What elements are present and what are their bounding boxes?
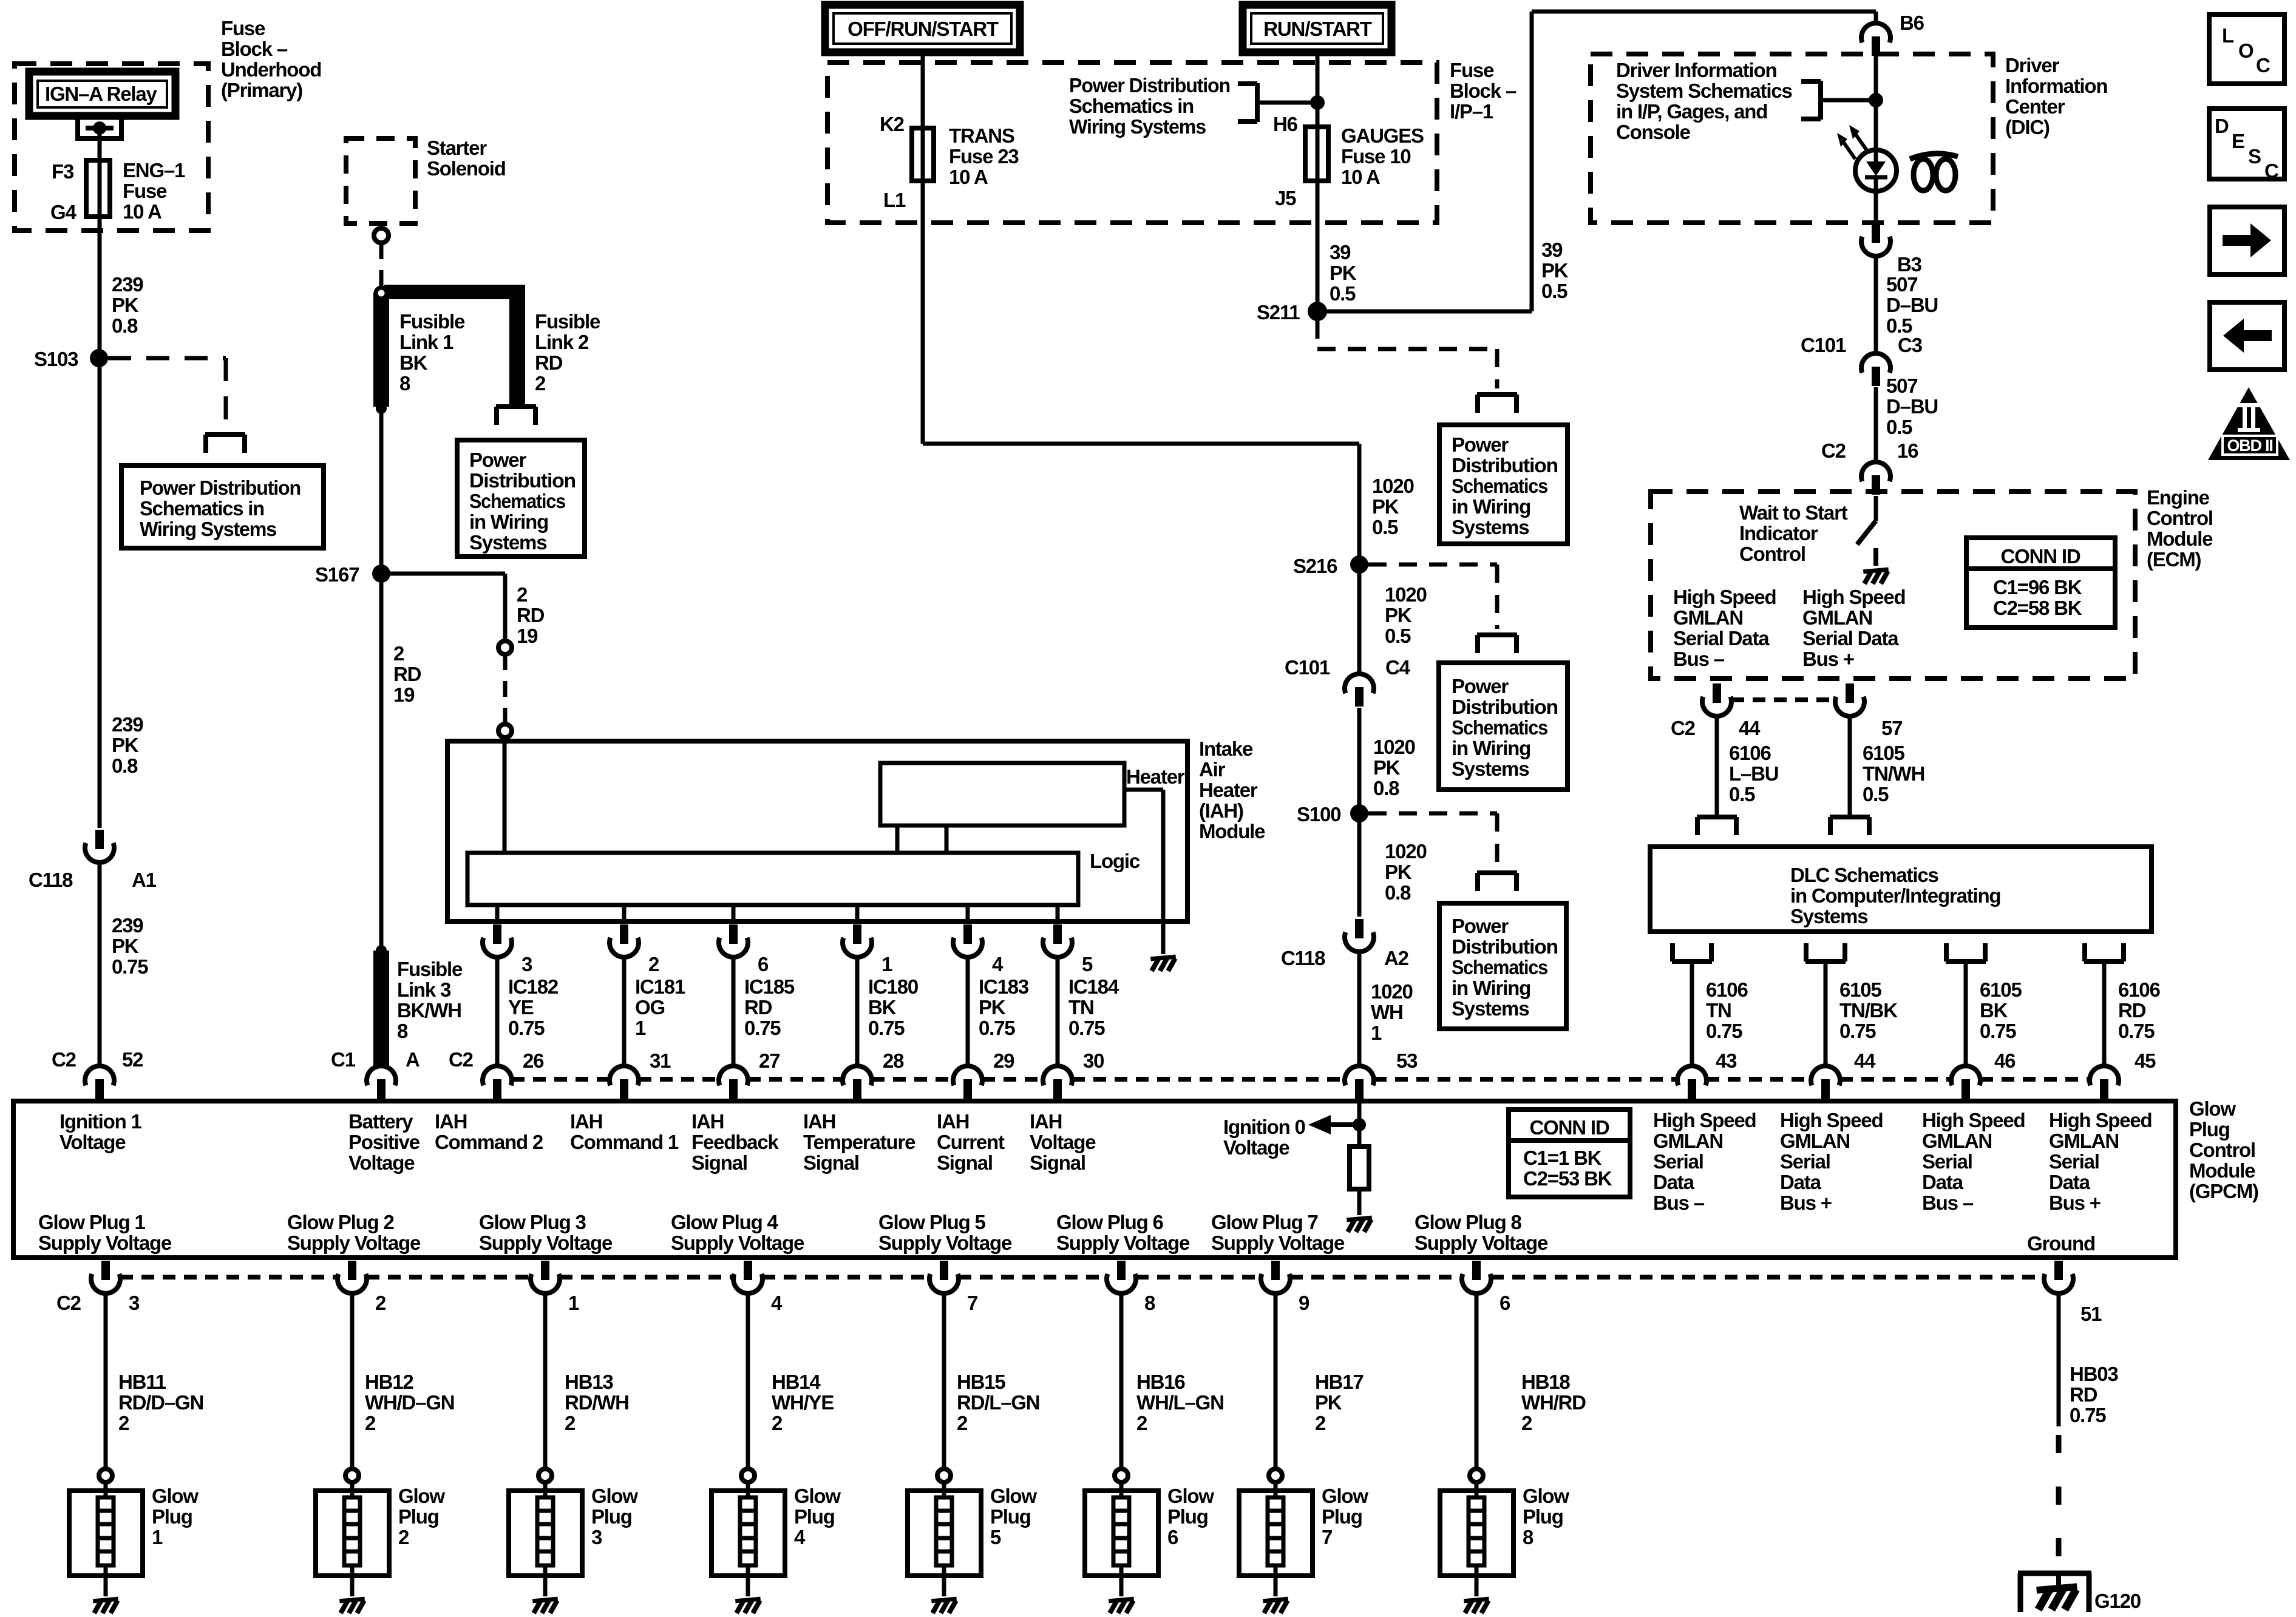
GPCM CONN ID box xyxy=(1509,1110,1630,1197)
bracket out of DLC (44) xyxy=(1805,943,1846,961)
svg-text:RD/WH: RD/WH xyxy=(565,1391,629,1414)
node above fusible link 3 xyxy=(376,945,387,956)
wire label 239 PK 0.8 xyxy=(112,273,143,337)
glow plug 7 box xyxy=(1239,1491,1313,1576)
GPCM C2 connector dashed row (top) xyxy=(512,1077,2090,1082)
svg-text:HB18: HB18 xyxy=(1521,1371,1570,1393)
GPCM bottom pin 6 connector xyxy=(1462,1261,1491,1293)
svg-text:Glow Plug 5: Glow Plug 5 xyxy=(878,1211,985,1233)
GPCM pin 30 connector xyxy=(1043,1066,1072,1099)
svg-text:C2: C2 xyxy=(1671,717,1696,739)
relay K label IGN-A Relay xyxy=(45,83,158,105)
svg-text:RD: RD xyxy=(2118,999,2146,1022)
GPCM C2 connector dashed row (bottom) xyxy=(120,1275,2044,1280)
svg-text:HB03: HB03 xyxy=(2070,1363,2118,1385)
ECM CONN ID divider xyxy=(1966,566,2115,571)
label C118 (A2) xyxy=(1281,947,1325,969)
wire label 6105 TN/WH 0.5 xyxy=(1863,742,1924,805)
svg-text:2: 2 xyxy=(398,1526,409,1548)
label CONN ID (GPCM) xyxy=(1530,1116,1609,1139)
svg-text:Block –: Block – xyxy=(1450,80,1517,102)
svg-text:Schematics: Schematics xyxy=(1452,716,1547,739)
label C101 (C3) xyxy=(1801,334,1846,356)
svg-text:C2: C2 xyxy=(56,1292,81,1314)
label IAH voltage signal xyxy=(1030,1110,1096,1174)
wire label HB15 xyxy=(957,1371,1039,1434)
svg-text:in I/P, Gages, and: in I/P, Gages, and xyxy=(1616,100,1767,123)
svg-text:Supply Voltage: Supply Voltage xyxy=(287,1232,421,1254)
glow plug 2 ground wire xyxy=(350,1576,355,1596)
label H6 xyxy=(1273,113,1298,135)
IAH output wire pin 1 xyxy=(855,905,860,923)
svg-text:C1=96 BK: C1=96 BK xyxy=(1993,576,2082,598)
label S100 xyxy=(1297,803,1340,825)
svg-text:Plug: Plug xyxy=(2189,1118,2230,1141)
svg-text:Wiring Systems: Wiring Systems xyxy=(140,518,276,540)
svg-text:5: 5 xyxy=(990,1526,1001,1548)
dashed wire to IAH xyxy=(503,654,508,724)
wire GPCM to glow plug 8 xyxy=(1475,1293,1479,1469)
svg-text:Bus –: Bus – xyxy=(1673,648,1725,670)
svg-text:(IAH): (IAH) xyxy=(1199,799,1243,822)
svg-text:Serial: Serial xyxy=(1780,1150,1830,1173)
dashed wire solenoid to fusible link xyxy=(379,243,384,286)
svg-text:C: C xyxy=(2256,54,2270,76)
svg-text:Underhood: Underhood xyxy=(221,58,321,81)
fusible link 1 label xyxy=(399,310,465,395)
GPCM CONN ID divider xyxy=(1509,1138,1630,1143)
ECM pin 57 connector xyxy=(1835,683,1864,716)
wire S211 to B6 riser xyxy=(1317,12,1876,311)
svg-text:2: 2 xyxy=(957,1412,968,1434)
gmlan bus - label 1 (GPCM) xyxy=(1653,1109,1756,1214)
label RUN/START xyxy=(1263,18,1371,40)
svg-text:B6: B6 xyxy=(1900,12,1924,34)
dashed branch from S100 xyxy=(1368,813,1497,867)
svg-text:Signal: Signal xyxy=(937,1151,993,1174)
svg-text:DLC Schematics: DLC Schematics xyxy=(1790,864,1938,886)
svg-text:Supply Voltage: Supply Voltage xyxy=(1211,1232,1345,1254)
wire GPCM to glow plug 2 xyxy=(350,1293,355,1469)
svg-text:C2=58 BK: C2=58 BK xyxy=(1993,597,2082,619)
label glow plug 1 supply voltage xyxy=(38,1211,172,1254)
svg-text:6105: 6105 xyxy=(1863,742,1904,764)
IAH internal ground xyxy=(1150,957,1175,971)
svg-text:GMLAN: GMLAN xyxy=(1673,606,1743,629)
junction dot H6 xyxy=(1310,95,1325,110)
svg-text:TN/BK: TN/BK xyxy=(1839,999,1898,1022)
forward arrow icon box xyxy=(2210,207,2284,274)
wire DLC to GPCM pin 45 xyxy=(2102,964,2107,1066)
svg-text:RD: RD xyxy=(535,351,563,374)
svg-text:Wiring Systems: Wiring Systems xyxy=(1069,115,1206,138)
label S103 xyxy=(34,348,78,370)
wire IC185 label xyxy=(744,975,795,1039)
wire label HB13 xyxy=(565,1371,629,1434)
label ignition 0 voltage xyxy=(1223,1116,1305,1159)
svg-text:6105: 6105 xyxy=(1839,978,1881,1001)
svg-text:GMLAN: GMLAN xyxy=(2049,1130,2119,1152)
svg-text:RUN/START: RUN/START xyxy=(1263,18,1371,40)
wire into IAH logic xyxy=(503,737,507,853)
svg-text:C118: C118 xyxy=(1281,947,1325,969)
fuse K2 value label xyxy=(949,124,1019,188)
label pin 9 (bottom) xyxy=(1299,1292,1309,1314)
svg-text:Link 1: Link 1 xyxy=(399,331,453,353)
svg-text:0.75: 0.75 xyxy=(112,955,148,978)
driver information text xyxy=(1616,59,1792,143)
svg-text:3: 3 xyxy=(129,1292,140,1314)
wire C118 A1 to GPCM pin 52 xyxy=(98,863,102,1066)
svg-text:0.75: 0.75 xyxy=(2118,1020,2155,1042)
svg-text:1020: 1020 xyxy=(1373,736,1415,758)
label B6 xyxy=(1900,12,1924,34)
svg-text:High Speed: High Speed xyxy=(1653,1109,1756,1131)
svg-text:1020: 1020 xyxy=(1372,475,1414,497)
GPCM bottom pin 2 connector xyxy=(338,1261,367,1293)
svg-text:9: 9 xyxy=(1299,1292,1309,1314)
label battery positive voltage xyxy=(348,1110,420,1174)
wire label HB11 xyxy=(118,1371,203,1434)
svg-text:Serial: Serial xyxy=(1653,1150,1703,1173)
wire S100 to C118 A2 xyxy=(1357,813,1362,917)
GPCM pin 52 connector xyxy=(85,1066,114,1099)
svg-text:Supply Voltage: Supply Voltage xyxy=(38,1232,172,1254)
label 43 xyxy=(1716,1049,1737,1072)
svg-text:Battery: Battery xyxy=(348,1110,413,1133)
svg-text:Power: Power xyxy=(469,449,526,471)
label pin 2 (bottom) xyxy=(375,1292,386,1314)
label glow plug 4 supply voltage xyxy=(671,1211,804,1254)
GPCM pin 29 connector xyxy=(953,1066,982,1099)
svg-text:5: 5 xyxy=(1082,953,1093,975)
label S216 xyxy=(1293,555,1337,577)
glow plug 8 ground wire xyxy=(1475,1576,1479,1596)
label 28 xyxy=(883,1049,904,1072)
svg-text:29: 29 xyxy=(993,1049,1014,1072)
ignition 0 ground xyxy=(1347,1218,1371,1232)
svg-text:Current: Current xyxy=(937,1131,1005,1153)
wire B6 to LED xyxy=(1874,55,1878,151)
svg-text:IAH: IAH xyxy=(803,1110,835,1133)
bracket out of DLC (45) xyxy=(2084,943,2124,961)
glow plug 1 terminal circle xyxy=(99,1469,112,1482)
svg-text:C: C xyxy=(2264,160,2278,182)
glow plug 1 ground wire xyxy=(104,1576,108,1596)
ignition 0 wire and junction xyxy=(1353,1100,1366,1147)
svg-text:Systems: Systems xyxy=(1452,997,1529,1020)
svg-text:Fuse: Fuse xyxy=(123,180,167,202)
wire S167 to fusible link 3 xyxy=(379,574,384,951)
svg-text:0.5: 0.5 xyxy=(1863,783,1889,805)
svg-text:Control: Control xyxy=(1739,543,1805,565)
svg-text:GAUGES: GAUGES xyxy=(1341,124,1424,147)
label 53 xyxy=(1396,1049,1418,1072)
svg-text:4: 4 xyxy=(771,1292,783,1314)
wire fuse H6 to S211 xyxy=(1316,181,1320,311)
svg-text:Fusible: Fusible xyxy=(399,310,465,333)
node S211 xyxy=(1308,302,1327,321)
label glow plug 6 supply voltage xyxy=(1056,1211,1190,1254)
wire GPCM to glow plug 3 xyxy=(543,1293,548,1469)
svg-text:System Schematics: System Schematics xyxy=(1616,80,1792,102)
svg-text:Fusible: Fusible xyxy=(397,958,463,980)
svg-text:High Speed: High Speed xyxy=(2049,1109,2152,1131)
svg-text:Glow Plug 8: Glow Plug 8 xyxy=(1415,1211,1521,1233)
ignition 0 resistor xyxy=(1350,1147,1369,1189)
connector C118 A2 xyxy=(1345,919,1374,952)
svg-text:Driver Information: Driver Information xyxy=(1616,59,1776,81)
svg-text:Schematics: Schematics xyxy=(1452,956,1547,978)
glow plug 7 ground wire xyxy=(1274,1576,1278,1596)
GPCM pin 28 connector xyxy=(843,1066,872,1099)
wire IAH to GPCM pin 27 xyxy=(732,957,736,1066)
glow plug 3 ground wire xyxy=(543,1576,548,1596)
wire label 6106 L-BU 0.5 xyxy=(1729,742,1778,805)
label J5 xyxy=(1275,187,1296,209)
wire label HB03 RD 0.75 xyxy=(2070,1363,2118,1426)
svg-text:2: 2 xyxy=(375,1292,386,1314)
svg-text:27: 27 xyxy=(759,1049,779,1072)
svg-text:BK: BK xyxy=(399,351,428,374)
svg-text:PK: PK xyxy=(979,996,1006,1019)
svg-text:3: 3 xyxy=(521,953,532,975)
G120 ground symbol xyxy=(2037,1573,2077,1610)
svg-text:I/P–1: I/P–1 xyxy=(1450,100,1493,123)
glow plug 8 ground xyxy=(1464,1599,1489,1613)
connector C101 C4 xyxy=(1345,674,1374,707)
svg-text:RD: RD xyxy=(393,663,421,685)
svg-text:C4: C4 xyxy=(1385,656,1411,679)
wire L1 to S216 riser xyxy=(923,181,1359,564)
wire pin 51 down xyxy=(2057,1293,2061,1426)
fuse K2 TRANS symbol xyxy=(912,128,934,181)
wire C2 16 into ECM xyxy=(1874,496,1878,521)
label 30 xyxy=(1083,1049,1104,1072)
node S216 xyxy=(1350,555,1368,574)
label pin 2 xyxy=(648,953,659,975)
label IAH command 2 xyxy=(435,1110,543,1153)
IAH pin 6 connector xyxy=(719,924,748,957)
label C2 (16) xyxy=(1821,439,1846,462)
relay K inner box xyxy=(38,81,167,107)
forward arrow xyxy=(2223,223,2271,257)
GPCM pin A connector xyxy=(367,1066,396,1099)
svg-text:1: 1 xyxy=(1371,1022,1382,1044)
svg-text:HB14: HB14 xyxy=(772,1371,821,1393)
svg-text:0.75: 0.75 xyxy=(1706,1020,1742,1042)
label Heater xyxy=(1126,765,1185,788)
wire through fuse K2 xyxy=(921,128,925,181)
wire IAH to GPCM pin 29 xyxy=(966,957,970,1066)
svg-text:Command 2: Command 2 xyxy=(435,1131,543,1153)
svg-text:Plug: Plug xyxy=(398,1505,439,1528)
label A xyxy=(406,1048,419,1071)
svg-text:Bus –: Bus – xyxy=(1922,1192,1974,1214)
dashed wire to G120 xyxy=(2056,1435,2062,1573)
svg-text:Feedback: Feedback xyxy=(691,1131,779,1153)
glow plug 6 terminal circle xyxy=(1115,1469,1128,1482)
svg-text:Plug: Plug xyxy=(1523,1505,1563,1528)
svg-text:Glow: Glow xyxy=(152,1485,199,1507)
svg-text:Fuse 10: Fuse 10 xyxy=(1341,145,1411,168)
svg-text:0.75: 0.75 xyxy=(868,1017,905,1039)
bracket to power distribution box (S211) xyxy=(1477,395,1517,413)
svg-text:E: E xyxy=(2232,130,2244,152)
svg-text:Bus –: Bus – xyxy=(1653,1192,1705,1214)
wire label 2 RD 19 (branch) xyxy=(517,583,545,647)
svg-text:TN/WH: TN/WH xyxy=(1863,762,1924,785)
gmlan bus + label 2 (GPCM) xyxy=(2049,1109,2152,1214)
svg-text:Plug: Plug xyxy=(152,1505,192,1528)
wire LED to DIC pin xyxy=(1874,192,1878,223)
fusible link 2 thick bar xyxy=(384,285,525,405)
svg-text:PK: PK xyxy=(112,734,139,756)
ignition 0 arrow xyxy=(1308,1115,1359,1134)
label glow plug 7 supply voltage xyxy=(1211,1211,1345,1254)
wire label 6105 BK xyxy=(1980,978,2022,1042)
svg-text:Distribution: Distribution xyxy=(1452,454,1558,476)
svg-text:0.8: 0.8 xyxy=(1373,777,1399,799)
RUN/START outer box xyxy=(1243,5,1391,52)
LED diode xyxy=(1865,150,1887,192)
bracket to power distribution box (S216) xyxy=(1477,635,1517,653)
svg-text:239: 239 xyxy=(112,914,143,937)
bracket to power distribution box (S100) xyxy=(1477,873,1517,891)
svg-text:2: 2 xyxy=(118,1412,129,1434)
GPCM pin 45 connector xyxy=(2090,1066,2119,1099)
DIC label xyxy=(2005,54,2107,138)
svg-text:(Primary): (Primary) xyxy=(221,79,302,101)
wait to start switch blade xyxy=(1857,521,1876,544)
label ground (GPCM) xyxy=(2027,1232,2095,1255)
svg-text:0.5: 0.5 xyxy=(1541,280,1567,302)
svg-text:Plug: Plug xyxy=(591,1505,632,1528)
OBD II text xyxy=(2227,436,2272,455)
svg-text:Logic: Logic xyxy=(1090,850,1140,872)
svg-text:G120: G120 xyxy=(2094,1590,2141,1612)
glow plug 1 label xyxy=(152,1485,199,1548)
glow plug 2 ground xyxy=(339,1599,364,1613)
svg-text:Plug: Plug xyxy=(1167,1505,1208,1528)
svg-text:High Speed: High Speed xyxy=(1922,1109,2025,1131)
svg-text:239: 239 xyxy=(112,273,143,296)
svg-text:45: 45 xyxy=(2135,1049,2156,1072)
svg-text:S211: S211 xyxy=(1257,301,1300,324)
label C118 (A1) xyxy=(29,869,73,891)
OBD II pillar xyxy=(2238,403,2260,432)
wire IC182 label xyxy=(508,975,559,1039)
high speed gmlan bus + label (ECM) xyxy=(1802,586,1906,670)
power distribution text (I/P) xyxy=(1069,74,1230,138)
svg-text:507: 507 xyxy=(1886,375,1917,397)
svg-text:Data: Data xyxy=(1780,1171,1822,1193)
svg-text:Fuse 23: Fuse 23 xyxy=(949,145,1019,168)
svg-text:52: 52 xyxy=(122,1048,143,1071)
svg-text:IC184: IC184 xyxy=(1068,975,1119,998)
glow plug 5 element xyxy=(936,1482,952,1576)
svg-text:IC181: IC181 xyxy=(635,975,685,998)
svg-text:Glow: Glow xyxy=(398,1485,445,1507)
label C2=53 BK xyxy=(1523,1167,1612,1190)
svg-text:10 A: 10 A xyxy=(1341,166,1380,188)
svg-text:PK: PK xyxy=(1385,604,1412,626)
svg-text:Bus +: Bus + xyxy=(1780,1192,1832,1214)
OFF/RUN/START inner box xyxy=(834,13,1011,44)
glow plug 1 element xyxy=(98,1482,114,1576)
wire label HB18 xyxy=(1521,1371,1586,1434)
svg-text:K2: K2 xyxy=(880,113,905,135)
svg-text:High Speed: High Speed xyxy=(1673,586,1776,608)
svg-text:BK: BK xyxy=(868,996,897,1019)
svg-text:6: 6 xyxy=(1167,1526,1178,1548)
svg-text:Glow: Glow xyxy=(1322,1485,1368,1507)
svg-text:C3: C3 xyxy=(1898,334,1923,356)
svg-text:BK/WH: BK/WH xyxy=(397,999,461,1022)
svg-text:in Wiring: in Wiring xyxy=(1452,495,1530,518)
fuse F3 ENG-1 symbol xyxy=(86,160,110,217)
DIC bottom pin connector xyxy=(1861,223,1890,256)
label A1 xyxy=(132,869,157,891)
svg-text:Systems: Systems xyxy=(1790,905,1867,927)
label 57 (ECM) xyxy=(1881,717,1902,739)
IAH pin 5 connector xyxy=(1043,924,1072,957)
svg-text:1: 1 xyxy=(881,953,892,975)
svg-text:Power: Power xyxy=(1452,433,1509,456)
node S100 xyxy=(1350,804,1368,822)
svg-text:H6: H6 xyxy=(1273,113,1298,135)
svg-text:10 A: 10 A xyxy=(949,166,988,188)
svg-text:C1: C1 xyxy=(331,1048,356,1071)
svg-text:F3: F3 xyxy=(52,160,74,183)
bracket out of DLC (43) xyxy=(1672,943,1712,961)
connector C2 16 xyxy=(1861,462,1890,495)
GPCM bottom pin 7 connector xyxy=(929,1261,959,1293)
label S211 xyxy=(1257,301,1300,324)
wire through fuse H6 xyxy=(1316,127,1320,181)
svg-text:A: A xyxy=(406,1048,419,1071)
glow plug 5 ground xyxy=(931,1599,956,1613)
svg-text:2: 2 xyxy=(772,1412,783,1434)
svg-text:Command 1: Command 1 xyxy=(570,1131,679,1153)
fuse block I/P-1 label xyxy=(1450,59,1517,123)
svg-text:0.75: 0.75 xyxy=(744,1017,781,1039)
svg-text:Schematics: Schematics xyxy=(469,490,565,512)
label B3 xyxy=(1897,253,1922,276)
svg-text:GMLAN: GMLAN xyxy=(1653,1130,1723,1152)
svg-text:OG: OG xyxy=(635,996,665,1019)
label C2 (bottom row) xyxy=(56,1292,81,1314)
svg-text:L1: L1 xyxy=(883,189,906,211)
label IAH temperature signal xyxy=(803,1110,915,1174)
svg-text:C101: C101 xyxy=(1801,334,1846,356)
svg-text:B3: B3 xyxy=(1897,253,1922,276)
svg-text:Link 3: Link 3 xyxy=(397,978,451,1001)
svg-text:2: 2 xyxy=(648,953,659,975)
IAH pin 4 connector xyxy=(953,924,982,957)
glow plug 4 ground xyxy=(735,1599,760,1613)
svg-text:HB16: HB16 xyxy=(1136,1371,1185,1393)
svg-text:Systems: Systems xyxy=(469,531,546,554)
svg-text:IC183: IC183 xyxy=(979,975,1029,998)
wire IAH to GPCM pin 31 xyxy=(622,957,627,1066)
heater-logic links xyxy=(897,825,946,853)
wire IC180 label xyxy=(868,975,918,1039)
svg-text:PK: PK xyxy=(1372,495,1399,518)
heater ground wire xyxy=(1124,790,1163,954)
glow plug 6 ground wire xyxy=(1119,1576,1124,1596)
svg-text:8: 8 xyxy=(1144,1292,1155,1314)
